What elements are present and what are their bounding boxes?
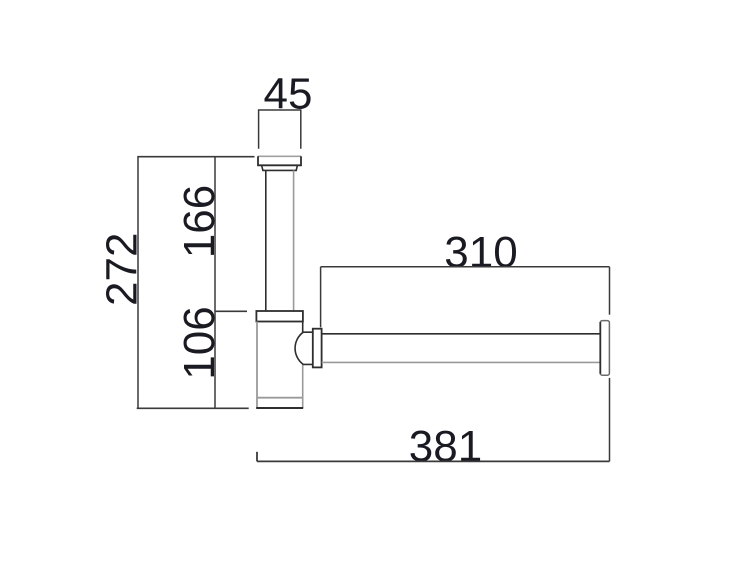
dim line 166/106 vertical [214,157,216,409]
extension line middle (y311.3) [215,310,248,312]
extension line bottom (y408.3) [137,407,249,409]
dim 381 left tick [256,452,258,462]
trap bottom edge [256,407,303,409]
tailpiece collar step [262,165,298,170]
trap bottom cap top line [257,397,303,399]
wall flange left edge highlight [599,322,601,374]
outlet dome [295,332,313,364]
compression nut [313,329,322,368]
svg-text:166: 166 [175,185,224,258]
extension line top (y156.7) [137,156,254,158]
trap top cap [256,311,303,322]
svg-text:272: 272 [98,233,147,306]
dim 310/381 right extension upper [609,267,611,315]
trap body left edge [256,322,258,409]
svg-text:45: 45 [264,70,313,119]
wall flange [600,321,609,376]
dim line 381 horizontal [257,460,610,462]
horizontal pipe top edge [322,333,601,335]
tailpiece top flange [258,156,301,165]
svg-text:381: 381 [409,422,482,471]
dim bracket 45 [259,110,301,149]
dim 310/381 right extension lower [609,378,611,462]
trap body right edge upper [302,322,304,333]
horizontal pipe bottom edge [322,361,601,363]
dim line 310 horizontal [321,266,610,268]
dim 310 left extension [320,267,322,328]
svg-text:310: 310 [444,228,517,277]
vertical pipe right edge [293,170,295,311]
dim line 272 vertical [137,157,139,409]
svg-text:106: 106 [175,306,224,379]
trap body right edge lower [302,364,304,408]
vertical pipe left edge [265,170,267,311]
